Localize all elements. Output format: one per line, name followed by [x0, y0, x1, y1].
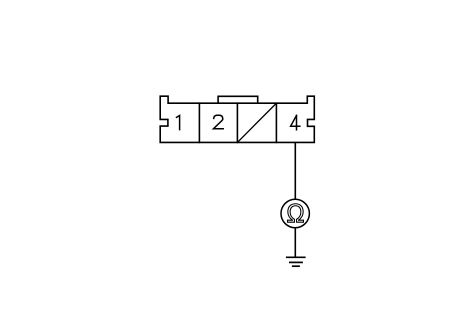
- cavity separator 2|3: [236, 103, 238, 142]
- ground symbol: [286, 257, 306, 266]
- connector top tab: [218, 96, 258, 103]
- wire: ohmmeter to ground: [294, 228, 296, 258]
- connector body outline: [160, 96, 314, 142]
- blocked cavity diagonal: [237, 103, 276, 142]
- ohmmeter omega symbol: [287, 204, 303, 222]
- ohmmeter circle: [281, 199, 309, 227]
- wire: pin 4 to ohmmeter: [294, 142, 296, 199]
- pin number 4: [291, 115, 300, 129]
- cavity separator 3|4: [275, 103, 277, 142]
- pin number 1: [177, 116, 180, 130]
- cavity separator 1|2: [198, 103, 200, 142]
- pin number 2: [214, 115, 224, 128]
